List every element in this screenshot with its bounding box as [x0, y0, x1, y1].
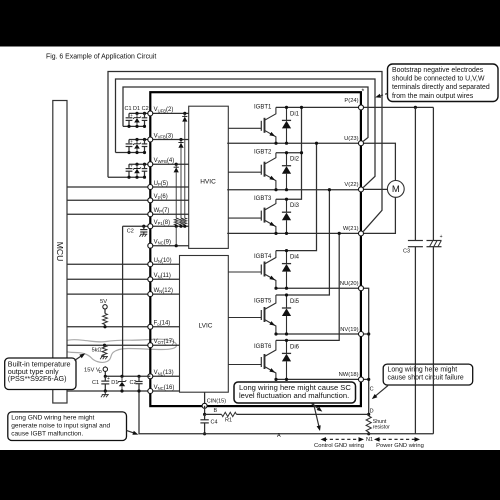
transistor IGBT3 [228, 196, 276, 233]
junction C2/rail [137, 375, 140, 378]
svg-text:Control GND wiring: Control GND wiring [314, 443, 364, 449]
pin WP(7) [148, 212, 153, 217]
wire MCU to pin VOT(17) [67, 344, 150, 346]
wire U down to IGBT4 collector [276, 143, 317, 250]
pin UP(5) [148, 185, 153, 190]
wire P rail [276, 106, 361, 108]
arrow from built-in temperature callout [75, 355, 84, 361]
junction C2/GND rail [137, 389, 140, 392]
wire (over callout) [414, 364, 416, 385]
junction Di5/IGBT5 collector [285, 293, 288, 296]
wire VP1(8) pin to 15V branch corner [123, 225, 151, 227]
svg-text:+: + [107, 376, 110, 382]
diode Di6 [282, 340, 291, 379]
wire V rail [227, 189, 361, 191]
junction VP1 branch/D1 [120, 375, 123, 378]
wire MCU to pin WP(7) [67, 213, 150, 215]
svg-text:IGBT3: IGBT3 [254, 196, 272, 202]
wire ground rail A (control+power GND) [139, 391, 433, 434]
pin VUFB(2) [148, 111, 153, 116]
shunt resistor [366, 416, 371, 432]
junction VP1/C2 [142, 225, 145, 228]
wire C2 to GND rail [138, 384, 140, 391]
svg-text:C: C [370, 387, 374, 393]
svg-text:Fo(14): Fo(14) [154, 321, 171, 327]
pin CIN(15) [202, 403, 207, 408]
junction VOT/5k resistor [103, 344, 106, 347]
svg-text:VVFB(3): VVFB(3) [154, 133, 174, 139]
svg-text:should be connected to U,V,W: should be connected to U,V,W [392, 76, 485, 83]
wire MCU to pin VN(11) [67, 278, 150, 280]
junction IGBT1 emitter/U rail [274, 142, 277, 145]
callout: SC level fluctuation note [234, 382, 356, 403]
svg-text:C3: C3 [403, 249, 410, 255]
junction P / C3 branch [414, 106, 417, 109]
svg-text:IGBT6: IGBT6 [254, 344, 272, 350]
svg-text:VNC(9): VNC(9) [154, 240, 171, 246]
junction W rail / W vertical [338, 232, 341, 235]
svg-text:15V V: 15V V [84, 368, 100, 374]
wire NW rail [276, 378, 361, 380]
svg-text:UN(10): UN(10) [154, 258, 172, 264]
capacitor C4 [200, 420, 208, 423]
wire VNC(9) pin to HVIC [150, 245, 188, 247]
wire NV to N bus [364, 333, 369, 335]
svg-text:resistor: resistor [373, 425, 390, 431]
hand-drawn highlight loop around VOT output [60, 339, 177, 362]
wire VN pin to LVIC [150, 278, 179, 280]
svg-text:M: M [392, 184, 400, 195]
pin VNC(16) [148, 389, 153, 394]
wire shunt to N1 [368, 432, 370, 434]
svg-text:VP1(8): VP1(8) [154, 220, 170, 226]
transistor IGBT5 [228, 295, 276, 334]
transistor IGBT4 [228, 251, 276, 289]
wire C1 to GND rail [104, 384, 106, 391]
diode Di4 [282, 251, 291, 289]
callout: built-in temperature output note [5, 358, 76, 390]
wire CIN pin to node B [204, 406, 206, 415]
junction 15V/C1 [104, 375, 107, 378]
wire pull-up to Fo [104, 325, 106, 327]
wire V down to IGBT5 collector [276, 190, 330, 295]
svg-text:IGBT4: IGBT4 [254, 254, 272, 260]
wire N bus NU to D node [364, 288, 369, 414]
wire Fo pin to LVIC [150, 326, 179, 328]
svg-text:CIN(15): CIN(15) [207, 398, 226, 404]
wire VUFB pin to HVIC [150, 112, 188, 114]
svg-text:D: D [370, 409, 374, 415]
wire 5V to pull-up resistor [104, 309, 106, 314]
junction NV / N bus [367, 332, 370, 335]
diode Di3 [282, 199, 291, 233]
ground (5k resistor) [100, 357, 108, 360]
svg-text:VOT(17): VOT(17) [154, 339, 175, 345]
junction Di4/NU rail [285, 287, 288, 290]
svg-text:C4: C4 [211, 419, 218, 425]
junction Di1/U rail [285, 142, 288, 145]
dashed arrow Control GND wiring [314, 437, 364, 449]
wire bootstrap V-phase negative electrode to V(22) [116, 79, 376, 187]
wire control GND rail MCU to pin VNC(16) [67, 390, 150, 392]
svg-text:+: + [440, 234, 443, 240]
pin W(21) [359, 231, 364, 236]
wire VN1 pin to LVIC [150, 375, 179, 377]
svg-text:WP(7): WP(7) [154, 208, 170, 214]
pin NU(20) [359, 286, 364, 291]
wire 15V terminal to rail [104, 371, 106, 376]
resistor R1 [222, 412, 237, 416]
wire W rail [227, 232, 361, 234]
wire C4 to ground rail A [204, 423, 206, 434]
junction IGBT2 emitter/V rail [274, 188, 277, 191]
wire WP pin to HVIC [150, 213, 188, 215]
wire VOT pin to LVIC [150, 344, 179, 346]
wire VWFB pin to HVIC [150, 163, 188, 165]
pin NV(19) [359, 332, 364, 337]
transistor IGBT1 [228, 104, 276, 143]
svg-text:Long GND wiring here might: Long GND wiring here might [11, 415, 94, 422]
supply terminal 15V VD [84, 366, 108, 374]
wire 15V rail to VN1 pin [105, 375, 150, 377]
svg-text:C1: C1 [92, 380, 99, 386]
wire C3 branch lower [414, 247, 416, 434]
svg-text:Di2: Di2 [290, 157, 300, 163]
wire MCU to pin VP(6) [67, 199, 150, 201]
wire VP1 to C2 [143, 226, 145, 229]
svg-text:Di3: Di3 [290, 203, 300, 209]
junction Di3/W rail [285, 232, 288, 235]
svg-text:NU(20): NU(20) [340, 281, 359, 287]
svg-text:VWFB(4): VWFB(4) [154, 158, 175, 164]
svg-text:D1: D1 [111, 380, 118, 386]
capacitor C2 (15V filter) [135, 382, 142, 384]
svg-text:N1: N1 [366, 437, 373, 443]
svg-text:A: A [277, 433, 281, 439]
diode Di2 [282, 153, 291, 190]
svg-text:level fluctuation and malfunct: level fluctuation and malfunction. [239, 391, 349, 400]
svg-text:Di6: Di6 [290, 344, 300, 350]
svg-text:VUFB(2): VUFB(2) [154, 107, 174, 113]
svg-text:Power GND wiring: Power GND wiring [376, 443, 424, 449]
junction node B [203, 413, 206, 416]
svg-text:from the main output wires: from the main output wires [392, 93, 474, 100]
svg-text:(PSS**S92F6-AG): (PSS**S92F6-AG) [8, 374, 67, 383]
svg-text:VNC(16): VNC(16) [154, 385, 175, 391]
zener diode D1 (15V clamp) [118, 376, 127, 391]
pin VP(6) [148, 198, 153, 203]
pin VWFB(4) [148, 162, 153, 167]
svg-text:Long wiring here might: Long wiring here might [388, 367, 458, 374]
wire MCU to pin WN(12) [67, 293, 150, 295]
svg-text:R1: R1 [225, 418, 232, 424]
junction U rail / U vertical [315, 142, 318, 145]
wire bootstrap U-phase negative electrode to U(23) [123, 87, 368, 141]
callout: bootstrap negative electrodes note [388, 64, 499, 102]
svg-text:P(24): P(24) [344, 98, 358, 104]
junction on VNC(9) wire [175, 244, 178, 247]
junction IGBT2 collector tap [300, 151, 303, 154]
wire DC source branch upper [432, 107, 434, 240]
pin NW(18) [359, 377, 364, 382]
svg-text:5V: 5V [100, 299, 107, 305]
MCU block [53, 101, 67, 404]
pin VNC(9) [148, 243, 153, 248]
resistor 5k on VOT [102, 345, 107, 356]
pin VOT(17) [148, 343, 153, 348]
junction Di6/NW rail [285, 378, 288, 381]
junction C1/GND rail [104, 389, 107, 392]
svg-text:IGBT2: IGBT2 [254, 150, 272, 156]
pin VN(11) [148, 277, 153, 282]
svg-text:C2: C2 [127, 229, 134, 235]
svg-text:NV(19): NV(19) [340, 327, 358, 333]
svg-text:U(23): U(23) [344, 136, 359, 142]
wire bootstrap W-phase negative electrode to W(21) [108, 72, 382, 232]
wire VNC(16) pin to LVIC [150, 390, 179, 392]
junction Di5/NV rail [285, 332, 288, 335]
bootstrap group 3: C1 D1 C2 (W phase) [108, 163, 150, 179]
DC link voltage source [427, 234, 443, 247]
internal bootstrap diode/resistor for VVFB [178, 138, 183, 228]
junction NW / N bus [367, 378, 370, 381]
arrows from SC level fluctuation callout [312, 404, 321, 411]
ground (C2 decoupling) [139, 234, 147, 237]
dashed arrow from bootstrap callout [379, 94, 388, 97]
junction V rail / V vertical [328, 188, 331, 191]
pin P(24) [359, 105, 364, 110]
svg-text:WN(12): WN(12) [154, 288, 173, 294]
svg-text:*: * [362, 89, 365, 96]
wire P(24) to DC link [364, 106, 434, 108]
wire UP pin to HVIC [150, 186, 188, 188]
svg-text:IGBT5: IGBT5 [254, 299, 272, 305]
junction IGBT5 emitter/NV rail [274, 332, 277, 335]
junction pull-up/Fo wire [103, 325, 106, 328]
junction D1/GND rail [120, 389, 123, 392]
resistor Fo pull-up [103, 314, 108, 325]
svg-text:C2: C2 [130, 380, 137, 386]
svg-text:Di4: Di4 [290, 255, 300, 261]
svg-text:5kΩ: 5kΩ [92, 347, 102, 353]
wire U rail [227, 142, 361, 144]
pin U(23) [359, 141, 364, 146]
arrow from long GND wiring callout [127, 431, 136, 434]
wire VP pin to HVIC [150, 199, 188, 201]
svg-text:B: B [214, 408, 218, 414]
wire MCU to pin Fo(14) [67, 326, 150, 328]
svg-text:terminals directly and separat: terminals directly and separated [392, 84, 490, 91]
supply terminal 5V [100, 299, 107, 309]
svg-text:D: D [99, 369, 102, 374]
wire [138, 376, 140, 381]
internal bootstrap diode/resistor for VUFB [182, 112, 187, 228]
pin Fo(14) [148, 324, 153, 329]
pin V(22) [359, 187, 364, 192]
diode Di1 [282, 107, 291, 143]
junction Di2/V rail [285, 188, 288, 191]
svg-text:cause IGBT malfunction.: cause IGBT malfunction. [11, 430, 83, 437]
wire VP1 chain to VNC(9) [175, 226, 177, 246]
pin VP1(8) [148, 224, 153, 229]
wire C2 to ground [143, 232, 145, 234]
pin VVFB(3) [148, 137, 153, 142]
IPM module boundary [150, 92, 361, 406]
pin WN(12) [148, 292, 153, 297]
svg-text:W(21): W(21) [343, 226, 359, 232]
capacitor C3 [408, 241, 423, 247]
motor M [364, 143, 404, 233]
callout: long GND wiring note [8, 412, 127, 441]
wire C3 branch upper [414, 107, 416, 240]
svg-text:VN(11): VN(11) [154, 273, 171, 279]
svg-text:Bootstrap negative electrodes: Bootstrap negative electrodes [392, 67, 484, 74]
IC LVIC [180, 256, 229, 393]
svg-text:LVIC: LVIC [199, 322, 213, 329]
svg-text:cause short circuit failure: cause short circuit failure [388, 375, 464, 382]
capacitor C1 (15V filter) [101, 376, 110, 384]
wire IGBT2 collector [276, 152, 302, 154]
junction Di1/P rail [285, 106, 288, 109]
wire W down to IGBT6 collector [276, 233, 339, 340]
svg-text:Fig. 6 Example of Application: Fig. 6 Example of Application Circuit [46, 54, 156, 61]
pin UN(10) [148, 262, 153, 267]
callout: short circuit failure note [383, 364, 473, 385]
wire node B to R1 [205, 413, 222, 415]
svg-text:UP(5): UP(5) [154, 181, 168, 187]
wire NW to N bus [364, 378, 369, 380]
junction N1 on ground rail [367, 432, 370, 435]
junction IGBT6 emitter/NW rail [274, 378, 277, 381]
wire node B to C4 [204, 414, 206, 419]
IC HVIC [189, 106, 229, 248]
svg-text:generate noise to input signal: generate noise to input signal and [11, 423, 110, 430]
wire MCU to pin UN(10) [67, 263, 150, 265]
bootstrap group 2: C1 D1 C2 (V phase) [116, 138, 151, 154]
wire P to IGBT2/IGBT3 collectors [276, 107, 302, 199]
svg-text:V(22): V(22) [344, 182, 358, 188]
wire R1 to node D [237, 413, 369, 415]
svg-text:+: + [130, 139, 133, 144]
junction Di3/IGBT3 collector [285, 198, 288, 201]
wire NU rail [276, 287, 361, 289]
ground (control GND) [101, 395, 109, 398]
dashed arrow Power GND wiring [374, 437, 424, 449]
svg-text:+: + [130, 113, 133, 118]
junction Di4/IGBT4 collector [285, 249, 288, 252]
diode Di5 [282, 295, 291, 334]
svg-text:HVIC: HVIC [200, 179, 216, 186]
arrow from short circuit callout [374, 386, 388, 398]
transistor IGBT2 [228, 150, 276, 190]
wire DC source branch lower [432, 247, 434, 434]
wire UN pin to LVIC [150, 263, 179, 265]
transistor IGBT6 [228, 340, 276, 379]
junction Di6/IGBT6 collector [285, 339, 288, 342]
svg-text:VP(6): VP(6) [154, 194, 168, 200]
wire (over callout) [432, 364, 434, 385]
svg-text:+: + [130, 164, 133, 169]
capacitor C2 (VP1 decoupling) [140, 230, 147, 232]
svg-text:NW(18): NW(18) [339, 372, 359, 378]
wire VVFB pin to HVIC [150, 139, 188, 141]
svg-text:IGBT1: IGBT1 [254, 104, 272, 110]
junction IGBT3 emitter/W rail [274, 232, 277, 235]
junction node D [367, 413, 370, 416]
wire WN pin to LVIC [150, 293, 179, 295]
wire rail to ground symbol [104, 391, 106, 395]
wire LVIC CIN out to pin CIN(15) [204, 392, 206, 406]
wire [104, 376, 106, 381]
wire VP1 pin to HVIC [150, 225, 188, 227]
wire NV rail [276, 333, 361, 335]
svg-text:Di1: Di1 [290, 111, 300, 117]
svg-text:C1 D1 C2: C1 D1 C2 [125, 106, 149, 112]
junction Di2/IGBT2 collector [285, 151, 288, 154]
pin VN1(13) [148, 374, 153, 379]
junction IGBT4 emitter/NU rail [274, 287, 277, 290]
svg-text:MCU: MCU [55, 242, 65, 262]
svg-text:VN1(13): VN1(13) [154, 370, 174, 376]
junction C4 / ground rail [203, 432, 206, 435]
internal bootstrap diode/resistor for VWFB [174, 163, 179, 228]
wire VP1 vertical down to 15V rail [122, 226, 124, 376]
junction P rail / P vertical [300, 106, 303, 109]
wire MCU to pin UP(5) [67, 186, 150, 188]
svg-text:Di5: Di5 [290, 299, 300, 305]
